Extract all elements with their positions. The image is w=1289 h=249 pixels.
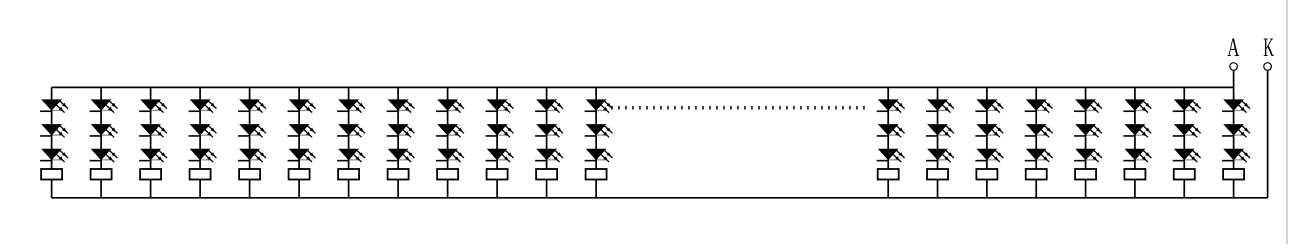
LED D6a	[288, 99, 316, 112]
wire: string 13 vertical	[887, 87, 889, 197]
LED D10c	[486, 149, 514, 162]
LED D17c	[1074, 149, 1102, 162]
wire: string 19 vertical	[1183, 87, 1185, 197]
LED D16a	[1025, 99, 1053, 112]
LED D19a	[1173, 99, 1201, 112]
LED D12c	[585, 149, 613, 162]
LED D13c	[877, 149, 905, 162]
LED D2b	[90, 124, 118, 137]
LED D3b	[139, 124, 167, 137]
LED D15b	[975, 124, 1003, 137]
resistor R18	[1124, 169, 1145, 180]
resistor R11	[536, 169, 557, 180]
wire: string 7 vertical	[348, 87, 350, 197]
LED D4a	[189, 99, 217, 112]
resistor R6	[289, 169, 310, 180]
LED D14c	[926, 149, 954, 162]
LED D15c	[975, 149, 1003, 162]
LED D3c	[139, 149, 167, 162]
wire: terminal A to top rail	[1233, 70, 1235, 87]
wire: string 1 vertical	[51, 87, 53, 197]
dotted continuation line between string 12 and string 13	[611, 106, 866, 109]
wire: string 15 vertical	[986, 87, 988, 197]
resistor R16	[1026, 169, 1047, 180]
LED D18c	[1123, 149, 1151, 162]
resistor R20	[1223, 169, 1244, 180]
LED D7b	[337, 124, 365, 137]
LED D18a	[1123, 99, 1151, 112]
LED D16c	[1025, 149, 1053, 162]
LED D5c	[238, 149, 266, 162]
LED D6c	[288, 149, 316, 162]
LED D1a	[40, 99, 68, 112]
LED D19b	[1173, 124, 1201, 137]
LED D12a	[585, 99, 613, 112]
resistor R10	[487, 169, 508, 180]
resistor R4	[190, 169, 211, 180]
LED D20a	[1222, 99, 1250, 112]
LED D8a	[387, 99, 415, 112]
LED D11b	[535, 124, 563, 137]
wire: string 5 vertical	[249, 87, 251, 197]
wire: string 18 vertical	[1134, 87, 1136, 197]
resistor R9	[437, 169, 458, 180]
LED D4c	[189, 149, 217, 162]
LED D16b	[1025, 124, 1053, 137]
LED D19c	[1173, 149, 1201, 162]
wire: string 2 vertical	[100, 87, 102, 197]
resistor R1	[41, 169, 62, 180]
wire: string 3 vertical	[150, 87, 152, 197]
wire: top anode rail (node A bus)	[52, 86, 1234, 88]
wire: string 20 vertical	[1233, 87, 1235, 197]
resistor R13	[878, 169, 899, 180]
LED D20b	[1222, 124, 1250, 137]
wire: string 11 vertical	[546, 87, 548, 197]
LED D17a	[1074, 99, 1102, 112]
wire: string 10 vertical	[496, 87, 498, 197]
LED D13a	[877, 99, 905, 112]
LED D8b	[387, 124, 415, 137]
wire: string 4 vertical	[199, 87, 201, 197]
LED D20c	[1222, 149, 1250, 162]
LED D2a	[90, 99, 118, 112]
LED D15a	[975, 99, 1003, 112]
wire: string 12 vertical	[595, 87, 597, 197]
wire: string 8 vertical	[397, 87, 399, 197]
LED D4b	[189, 124, 217, 137]
LED D13b	[877, 124, 905, 137]
LED D18b	[1123, 124, 1151, 137]
LED D7c	[337, 149, 365, 162]
LED D5b	[238, 124, 266, 137]
LED D12b	[585, 124, 613, 137]
resistor R7	[338, 169, 359, 180]
resistor R19	[1174, 169, 1195, 180]
LED D11c	[535, 149, 563, 162]
LED D10b	[486, 124, 514, 137]
resistor R3	[140, 169, 161, 180]
LED D9a	[436, 99, 464, 112]
resistor R12	[586, 169, 607, 180]
LED D14b	[926, 124, 954, 137]
LED D14a	[926, 99, 954, 112]
LED D9c	[436, 149, 464, 162]
LED D1c	[40, 149, 68, 162]
svg-text:K: K	[1263, 33, 1274, 62]
LED D2c	[90, 149, 118, 162]
LED D8c	[387, 149, 415, 162]
LED D5a	[238, 99, 266, 112]
page edge line (decorative)	[1286, 0, 1288, 244]
wire: string 17 vertical	[1085, 87, 1087, 197]
LED D9b	[436, 124, 464, 137]
wire: string 6 vertical	[298, 87, 300, 197]
resistor R14	[927, 169, 948, 180]
wire: string 9 vertical	[447, 87, 449, 197]
wire: terminal K down to bottom rail	[1267, 70, 1269, 198]
terminal A circle	[1230, 63, 1238, 71]
resistor R8	[388, 169, 409, 180]
LED D3a	[139, 99, 167, 112]
terminal K circle	[1264, 63, 1272, 71]
resistor R17	[1075, 169, 1096, 180]
wire: string 14 vertical	[937, 87, 939, 197]
resistor R5	[239, 169, 260, 180]
LED D17b	[1074, 124, 1102, 137]
LED D10a	[486, 99, 514, 112]
wire: bottom cathode rail (node K bus)	[52, 197, 1268, 199]
wire: string 16 vertical	[1035, 87, 1037, 197]
resistor R2	[91, 169, 112, 180]
LED D1b	[40, 124, 68, 137]
LED D6b	[288, 124, 316, 137]
LED D11a	[535, 99, 563, 112]
resistor R15	[976, 169, 997, 180]
LED D7a	[337, 99, 365, 112]
svg-text:A: A	[1227, 33, 1239, 62]
